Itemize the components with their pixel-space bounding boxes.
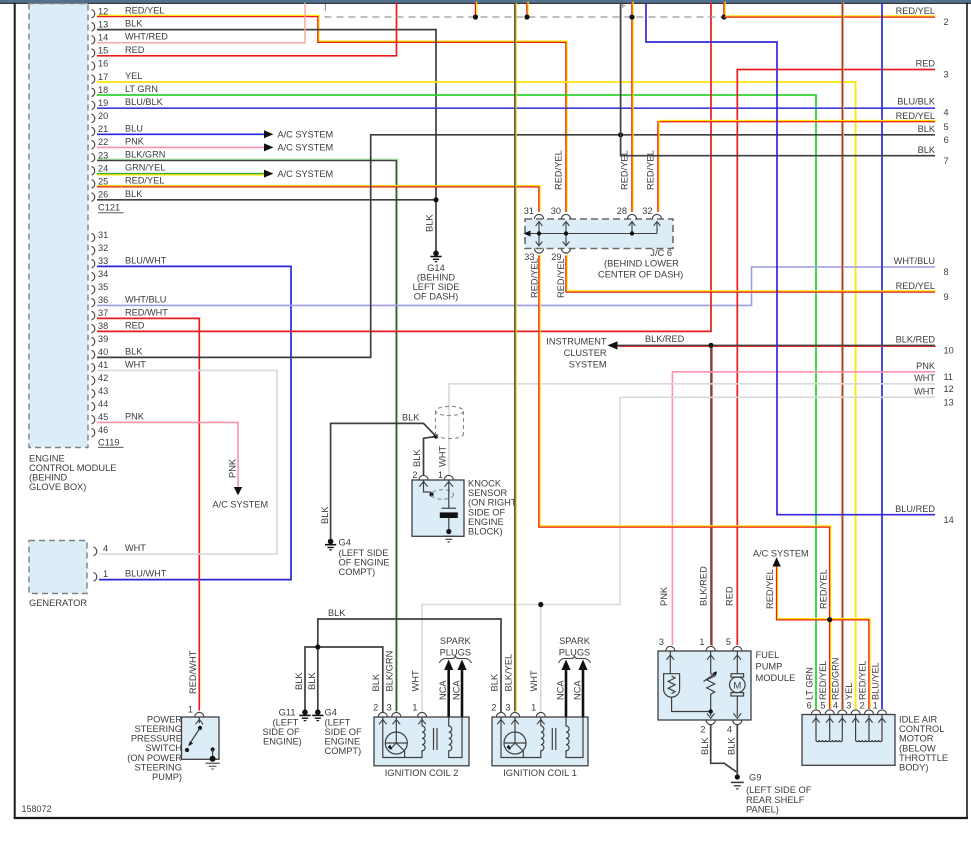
svg-text:(LEFT SIDE: (LEFT SIDE [339,548,389,558]
svg-text:G14: G14 [427,263,445,273]
J/C6 junction at pin 31 column [537,231,541,235]
svg-text:(LEFT: (LEFT [325,718,351,728]
svg-text:WHT: WHT [529,670,539,691]
ignition coil 1 pin brackets [496,712,545,717]
wire pin37 RED/WHT to power steering switch [97,318,199,710]
RED/YEL stub from top edge at x475 [476,1,477,17]
INSTRUMENT CLUSTER SYSTEM caption [546,336,607,369]
wire right exit 12 WHT to knock sensor pin 1 [449,384,935,475]
ENGINE CONTROL MODULE caption [29,453,116,492]
svg-text:37: 37 [98,308,108,318]
svg-text:RED/YEL: RED/YEL [765,569,775,609]
svg-text:WHT/BLU: WHT/BLU [894,256,935,266]
svg-text:39: 39 [98,334,108,344]
svg-text:13: 13 [944,398,954,408]
junction dashed bus x724 [721,14,726,19]
svg-text:PUMP: PUMP [756,662,783,672]
knock sensor internals (piezo + shield) [419,480,458,542]
svg-text:COMPT): COMPT) [325,746,362,756]
wire pin26 BLK joining pin13 BLK [97,199,436,201]
svg-text:3: 3 [505,703,510,713]
svg-text:20: 20 [98,111,108,121]
svg-text:13: 13 [98,19,108,29]
svg-text:BLK: BLK [402,413,420,423]
RED/GRN from top edge to idle air control pin 4 [842,3,843,709]
svg-text:5: 5 [944,122,949,132]
svg-text:2: 2 [491,703,496,713]
J/C6 junction at pin 30 column [564,231,568,235]
BLK/YEL from top edge to ignition coil 1 pin 3 [515,3,516,712]
svg-text:(LEFT: (LEFT [273,718,299,728]
power steering pressure switch internals [185,717,220,769]
wire pin38 RED to top edge via x711 [97,3,711,332]
fuel pump module box [658,651,751,720]
svg-text:LEFT SIDE: LEFT SIDE [413,282,460,292]
page header bar [0,0,971,3]
svg-text:BLK/GRN: BLK/GRN [125,149,165,159]
J/C6 internal arrowheads [524,222,661,246]
svg-text:32: 32 [98,243,108,253]
svg-text:MODULE: MODULE [756,673,796,683]
svg-text:BODY): BODY) [899,763,928,773]
svg-text:4: 4 [944,108,949,118]
G4 caption (knock drain) [339,538,390,578]
generator box (dashed) [29,541,87,594]
ignition coil 2 internals (driver transistor + windings) [379,717,462,758]
svg-text:BLU: BLU [125,123,143,133]
ground G4 (knock drain) [325,539,336,550]
svg-text:6: 6 [807,701,812,711]
svg-text:ENGINE): ENGINE) [263,737,302,747]
ignition coil 2 pin numbers [373,703,417,713]
svg-text:STEERING: STEERING [134,724,182,734]
svg-text:RED/YEL: RED/YEL [896,281,935,291]
svg-text:G4: G4 [325,708,337,718]
svg-text:LT GRN: LT GRN [804,667,814,700]
svg-text:BLK/RED: BLK/RED [896,335,936,345]
svg-text:BLU/WHT: BLU/WHT [125,569,167,579]
svg-text:(BELOW: (BELOW [899,743,936,753]
svg-text:BLK: BLK [700,737,710,755]
svg-text:RED/WHT: RED/WHT [188,650,198,694]
fuel pump pin brackets top [666,646,742,651]
svg-text:4: 4 [833,701,838,711]
svg-text:NCA: NCA [555,680,565,700]
svg-text:BLU/YEL: BLU/YEL [870,662,880,700]
svg-text:F: F [622,3,626,10]
POWER STEERING PRESSURE SWITCH caption [127,714,182,782]
wire right exit 9 RED/YEL from J/C6 pin 29 [566,254,936,292]
power steering pressure switch box [182,717,220,759]
svg-text:GLOVE BOX): GLOVE BOX) [29,482,86,492]
junction WHT coil bus [538,602,543,607]
svg-text:(ON POWER: (ON POWER [127,753,182,763]
connector C121 label [98,203,124,213]
svg-text:COMPT): COMPT) [339,567,376,577]
svg-text:G11: G11 [279,708,296,718]
BLK ground bus for ignition coils [318,619,501,712]
ground G4 (engine compt) [312,710,323,721]
svg-text:SIDE OF: SIDE OF [325,727,363,737]
svg-text:15: 15 [98,46,108,56]
BLK/RED drop to fuel pump pin 1 [711,345,712,646]
svg-text:BLK: BLK [918,124,936,134]
page frame left border [14,3,16,819]
svg-text:PANEL): PANEL) [746,805,779,815]
svg-text:(ON RIGHT: (ON RIGHT [468,498,517,508]
svg-text:RED/YEL: RED/YEL [896,111,935,121]
ignition coil 1 spark plug leads (NCA) [561,660,587,718]
svg-text:REAR SHELF: REAR SHELF [746,795,805,805]
svg-text:9: 9 [944,292,949,302]
svg-text:5: 5 [820,701,825,711]
svg-text:YEL: YEL [844,683,854,700]
svg-text:RED/YEL: RED/YEL [125,176,164,186]
idle air control pin brackets [811,710,886,715]
ignition coil 1 pin numbers [491,703,536,713]
svg-text:A/C SYSTEM: A/C SYSTEM [753,549,809,559]
KNOCK SENSOR caption [468,479,517,537]
svg-text:35: 35 [98,282,108,292]
wire pin17 YEL to idle air control pin 3 [97,82,856,709]
junction RED/YEL at idle air control feed [827,617,832,622]
svg-text:BLK/RED: BLK/RED [645,334,685,344]
svg-text:BLK: BLK [424,214,434,232]
svg-text:2: 2 [373,703,378,713]
svg-text:CENTER OF DASH): CENTER OF DASH) [598,269,683,279]
svg-text:RED/YEL: RED/YEL [857,661,867,700]
svg-text:RED/YEL: RED/YEL [125,6,164,16]
svg-text:WHT/RED: WHT/RED [125,32,168,42]
svg-text:18: 18 [98,85,108,95]
svg-text:A/C SYSTEM: A/C SYSTEM [278,169,334,179]
svg-text:22: 22 [98,137,108,147]
svg-text:31: 31 [524,206,534,216]
svg-text:33: 33 [98,256,108,266]
page frame right border [966,3,968,819]
ignition coil 2 spark plug leads (NCA) [444,660,467,718]
wire pin14 WHT/RED to top edge [97,3,305,43]
svg-text:ENGINE: ENGINE [325,737,361,747]
svg-text:SYSTEM: SYSTEM [569,359,607,369]
IDLE AIR CONTROL MOTOR caption [899,715,948,773]
ignition coil 1 SPARK PLUGS caption + brace [559,636,591,663]
RED/YEL stub from top edge at x527 [527,1,528,17]
svg-text:THROTTLE: THROTTLE [899,753,948,763]
ignition coil 1 internals (driver transistor + windings) [497,717,583,758]
power steering switch pin 1 bracket [195,712,204,717]
svg-text:3: 3 [846,701,851,711]
svg-text:RED: RED [125,320,145,330]
generator pin 1 [94,573,97,582]
svg-text:A/C SYSTEM: A/C SYSTEM [213,500,269,510]
svg-text:(BEHIND: (BEHIND [417,273,456,283]
wire pin12 RED/YEL to J/C6 pin 30 [97,15,567,212]
svg-text:RED/YEL: RED/YEL [556,258,566,298]
svg-text:28: 28 [617,206,627,216]
junction ground G9 node [735,774,740,779]
svg-text:2: 2 [700,725,705,735]
svg-text:CLUSTER: CLUSTER [564,348,607,358]
svg-text:PNK: PNK [916,361,936,371]
dashed bus from top edge (RED/YEL feed) [325,4,724,17]
svg-text:1: 1 [699,637,704,647]
svg-text:5: 5 [726,637,731,647]
J/C6 pin brackets top [534,214,661,219]
svg-text:BLK: BLK [918,145,936,155]
wire pin33 BLU/WHT to generator pin 1 [97,266,291,579]
svg-text:STEERING: STEERING [134,762,182,772]
wire pin45 PNK to A/C system arrow [97,422,238,487]
svg-text:SENSOR: SENSOR [468,488,508,498]
svg-text:BLU/RED: BLU/RED [895,504,935,514]
svg-text:14: 14 [944,515,954,525]
svg-text:2: 2 [860,701,865,711]
svg-text:3: 3 [944,70,949,80]
svg-text:21: 21 [98,124,108,134]
A/C SYSTEM arrow (pin21 BLU) [264,130,273,138]
svg-text:BLK: BLK [294,672,304,690]
svg-text:RED/YEL: RED/YEL [818,661,828,700]
wire pin40 BLK to right exit 6 [97,135,935,358]
svg-text:G4: G4 [339,538,351,548]
WHT branch to ignition coil 1 pin 1 [540,605,542,713]
svg-text:40: 40 [98,347,108,357]
J/C6 internal bus [529,223,657,246]
svg-text:CONTROL: CONTROL [899,724,944,734]
RED/YEL branch to A/C system arrow [777,565,831,620]
A/C SYSTEM arrow (pin24 GRN/YEL) [264,170,273,178]
svg-text:1: 1 [412,703,417,713]
svg-text:PNK: PNK [659,586,669,606]
wire pin19 BLU/BLK to right exit 4 [97,107,935,109]
svg-text:26: 26 [98,190,108,200]
junction dashed bus x475 [473,14,478,19]
ignition coil 1 box [492,717,588,766]
svg-text:RED/YEL: RED/YEL [818,569,828,609]
svg-text:GENERATOR: GENERATOR [29,598,87,608]
wire pin23 BLK/GRN to ignition coil 2 pin 3 [97,159,398,711]
ignition coil 2 SPARK PLUGS caption + brace [439,636,471,663]
knock sensor BLK (pin 2) to shield [424,436,437,475]
BLU/YEL from top edge to idle air control pin 1 [881,3,883,709]
svg-text:WHT: WHT [410,670,420,691]
BLK branch to ignition coil 2 pin 2 [318,647,383,712]
wire pin22 PNK to A/C system [97,146,264,148]
fuel pump BLK pin2 to ground G9 [711,725,737,772]
fuel pump pin numbers [659,637,732,735]
junction BLK/RED at x711 [708,343,713,348]
svg-text:NCA: NCA [438,680,448,700]
svg-text:38: 38 [98,321,108,331]
ground G9 symbol [731,782,744,788]
idle air control pin numbers [807,701,878,711]
wire pin18 LT GRN to idle air control pin 6 [97,95,816,709]
svg-text:MOTOR: MOTOR [899,734,934,744]
svg-text:158072: 158072 [22,804,52,814]
svg-text:30: 30 [551,206,561,216]
svg-text:BLK: BLK [125,19,143,29]
svg-text:ENGINE: ENGINE [468,517,504,527]
svg-text:1: 1 [103,569,108,579]
svg-text:BLK: BLK [489,673,499,691]
svg-text:24: 24 [98,163,108,173]
G4 caption (engine compt) [325,708,363,757]
right edge circuit exit labels [894,6,954,525]
svg-text:YEL: YEL [125,71,142,81]
svg-text:SPARK: SPARK [559,636,591,646]
svg-text:WHT/BLU: WHT/BLU [125,294,166,304]
J/C6 junction at pin 28 column [630,231,634,235]
BLK drop to ground G4 [317,647,319,710]
ECM connector C121 pins 12-26 [92,6,169,202]
svg-text:PNK: PNK [125,411,145,421]
junction exit6 BLK with exit7 BLK column [618,132,623,137]
svg-text:8: 8 [944,267,949,277]
svg-text:WHT: WHT [914,387,935,397]
svg-text:KNOCK: KNOCK [468,479,502,489]
svg-text:BLU/WHT: BLU/WHT [125,255,167,265]
svg-text:1: 1 [438,470,443,480]
svg-text:OF ENGINE: OF ENGINE [339,558,390,568]
svg-text:RED/YEL: RED/YEL [896,6,935,16]
ECM connector C119 pins 31-46 [92,230,169,437]
fuel pump module internals (sender, variable resistor, motor) [664,651,746,718]
ignition coil 2 pin brackets [378,712,426,717]
svg-text:RED/YEL: RED/YEL [530,258,540,298]
wire right exit 14 BLU/RED from top edge [646,3,935,515]
svg-text:2: 2 [412,470,417,480]
svg-text:CONTROL MODULE: CONTROL MODULE [29,463,116,473]
svg-text:BLK: BLK [727,737,737,755]
svg-text:ENGINE: ENGINE [29,453,65,463]
svg-text:43: 43 [98,386,108,396]
svg-text:36: 36 [98,295,108,305]
svg-text:42: 42 [98,373,108,383]
svg-text:3: 3 [387,703,392,713]
svg-text:PNK: PNK [125,136,145,146]
shield cylinder (dashed) around knock sensor WHT lead [436,406,464,438]
svg-text:RED/YEL: RED/YEL [554,150,564,190]
knock sensor box [412,480,464,536]
J/C 6 caption [598,248,683,280]
svg-text:BLK/YEL: BLK/YEL [503,654,513,692]
svg-text:12: 12 [944,384,954,394]
svg-text:FUEL: FUEL [756,650,780,660]
svg-text:BLU/BLK: BLU/BLK [125,97,164,107]
svg-text:25: 25 [98,176,108,186]
svg-text:INSTRUMENT: INSTRUMENT [546,336,607,346]
svg-text:31: 31 [98,230,108,240]
svg-text:RED: RED [916,59,936,69]
svg-text:11: 11 [944,372,954,382]
svg-text:7: 7 [944,156,949,166]
svg-text:IDLE AIR: IDLE AIR [899,715,938,725]
A/C SYSTEM arrow (pin22 PNK) [264,143,273,151]
svg-text:GRN/YEL: GRN/YEL [125,163,165,173]
ECM connector box (dashed) [29,4,88,448]
wire right exit 11 PNK to fuel pump pin 3 [672,372,935,645]
svg-text:14: 14 [98,32,108,42]
idle air control motor internals (two windings) [812,715,885,742]
svg-text:IGNITION COIL 1: IGNITION COIL 1 [503,767,577,778]
wire pin41 WHT to generator pin 4 [97,370,277,554]
svg-text:SIDE OF: SIDE OF [263,727,301,737]
svg-text:RED/YEL: RED/YEL [646,150,656,190]
wire right exit 13 WHT to ignition coil pins 1 [422,397,935,712]
svg-text:44: 44 [98,399,108,409]
svg-text:(LEFT SIDE OF: (LEFT SIDE OF [746,785,812,795]
svg-text:46: 46 [98,425,108,435]
wire pin25 RED/YEL to J/C6 pin 31 [97,186,540,212]
shield drain BLK to ground G4 [331,423,436,539]
wire J/C6 pin 33 RED/YEL to A/C system and idle air control [539,254,831,709]
fuel pump BLK pin4 to ground G9 [736,725,738,777]
wire right exit 10 BLK/RED instrument cluster to fuel pump pin 1 [617,345,936,346]
svg-text:2: 2 [944,17,949,27]
svg-text:34: 34 [98,269,108,279]
svg-text:G9: G9 [749,773,761,783]
generator pin 4 [94,547,97,556]
junction pin13/pin26 BLK [433,197,438,202]
svg-text:IGNITION COIL 2: IGNITION COIL 2 [385,767,459,778]
svg-text:NCA: NCA [572,680,582,700]
idle air control wire labels [804,658,880,700]
RED/YEL stub from top edge at x724 [724,1,725,17]
svg-text:45: 45 [98,412,108,422]
ground G14 [430,251,441,262]
wire right exit 2 RED/YEL [724,16,936,17]
svg-text:1: 1 [188,705,193,715]
svg-text:BLK: BLK [328,608,346,618]
wire right exit 7 BLK from top edge [621,3,935,156]
svg-text:NCA: NCA [451,680,461,700]
idle air control motor box [802,715,895,766]
junction dashed bus x632 [629,14,634,19]
svg-text:WHT: WHT [914,373,935,383]
svg-text:BLOCK): BLOCK) [468,527,503,537]
svg-text:C121: C121 [98,203,120,213]
A/C SYSTEM arrow (pin45 PNK, pointing down) [234,487,242,495]
junction shield drain [434,434,439,439]
svg-text:3: 3 [659,637,664,647]
A/C SYSTEM arrow (up) near idle air control [772,557,780,566]
svg-text:BLK: BLK [412,449,422,467]
wire pin36 WHT/BLU to right exit 8 [97,267,935,305]
BLK branch to ground G11 [305,647,318,710]
svg-text:4: 4 [727,725,732,735]
G11 caption [263,708,302,747]
svg-text:A/C SYSTEM: A/C SYSTEM [278,130,334,140]
page frame bottom border [14,817,968,819]
RED/YEL branch to idle air control pin 2 [830,619,870,709]
svg-text:PUMP): PUMP) [152,772,182,782]
svg-text:BLK/GRN: BLK/GRN [385,651,395,692]
wire right exit 3 RED to fuel pump pin 5 [737,70,935,646]
svg-text:C119: C119 [98,438,120,448]
svg-text:WHT: WHT [125,543,146,553]
svg-text:LT GRN: LT GRN [125,84,158,94]
svg-text:WHT: WHT [125,359,146,369]
wire pin15 RED to top edge [97,3,397,56]
svg-text:16: 16 [98,59,108,69]
svg-text:6: 6 [944,135,949,145]
svg-text:RED/WHT: RED/WHT [125,307,168,317]
junction BLK ground bus [315,644,320,649]
wire pin21 BLU to A/C system [97,133,264,135]
svg-text:BLK: BLK [125,346,143,356]
svg-text:SIDE OF: SIDE OF [468,507,506,517]
